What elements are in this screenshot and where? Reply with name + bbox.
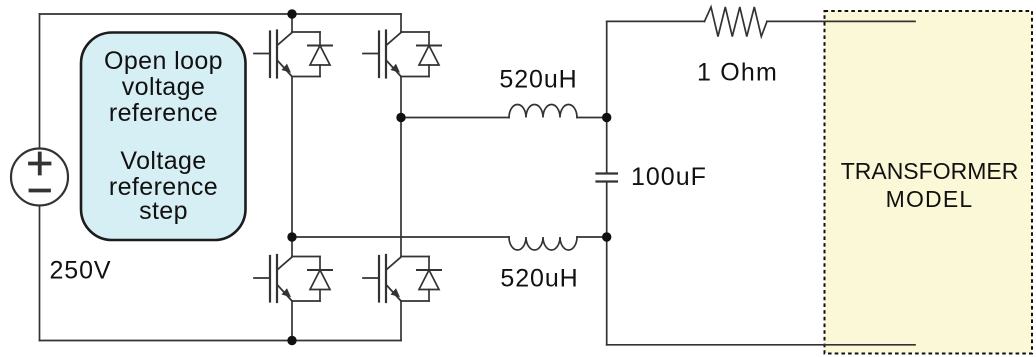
svg-text:TRANSFORMER: TRANSFORMER xyxy=(841,158,1019,184)
junction: bottom rail / leg A emitter xyxy=(287,336,296,345)
wire: capacitor node up to resistor xyxy=(607,20,705,22)
transistor Q3 (bottom-left), IGBT xyxy=(254,255,292,302)
diode D1 (antiparallel) xyxy=(292,32,332,77)
junction: leg A midpoint node xyxy=(287,232,296,241)
wire: leg B midpoint to upper filter inductor xyxy=(401,117,509,119)
wire: leg A midpoint down to Q3 collector xyxy=(291,237,293,257)
svg-text:voltage: voltage xyxy=(122,73,205,101)
junction: top rail / leg A collector xyxy=(287,9,296,18)
wire: capacitor branch vertical (lower) xyxy=(606,182,608,345)
svg-text:MODEL: MODEL xyxy=(886,186,974,212)
junction: capacitor bottom node xyxy=(602,232,611,241)
transformer model block xyxy=(825,11,1033,354)
svg-text:Open loop: Open loop xyxy=(104,47,223,75)
wire: leg B midpoint down to Q4 collector (crosses lower filter wire, no junction) xyxy=(400,118,402,257)
svg-text:reference: reference xyxy=(109,99,218,127)
junction: capacitor top node xyxy=(602,113,611,122)
wire: leg A midpoint to lower filter inductor xyxy=(292,236,509,238)
wire: left vertical, source to top rail xyxy=(39,14,41,149)
wire: leg A collector drop from top rail xyxy=(291,14,293,32)
annotation box: open loop voltage reference xyxy=(81,33,246,241)
junction: leg B midpoint node xyxy=(396,113,405,122)
wire: top DC rail xyxy=(40,13,402,15)
inductor L2, 520uH (lower) xyxy=(509,237,577,250)
svg-text:520uH: 520uH xyxy=(500,265,578,293)
svg-text:100uF: 100uF xyxy=(631,163,707,191)
wire: leg B lower emitter to bottom rail xyxy=(400,301,402,341)
wire: leg A lower emitter to bottom rail xyxy=(291,301,293,341)
wire: bottom DC rail xyxy=(40,340,402,342)
svg-text:step: step xyxy=(139,197,188,225)
svg-text:520uH: 520uH xyxy=(499,66,577,94)
diode D2 (antiparallel) xyxy=(401,32,441,77)
wire: leg A emitter down to midpoint node xyxy=(291,77,293,238)
voltage source V1 (250V DC) xyxy=(11,149,68,206)
capacitor C1, 100uF xyxy=(597,174,618,182)
svg-text:Voltage: Voltage xyxy=(120,147,206,175)
diode D4 (antiparallel) xyxy=(401,257,441,302)
transistor Q2 (top-right), IGBT xyxy=(363,31,401,78)
svg-text:250V: 250V xyxy=(50,257,112,285)
transistor Q4 (bottom-right), IGBT xyxy=(363,255,401,302)
resistor R1, 1 Ohm xyxy=(705,7,768,37)
wire: capacitor branch vertical (upper) xyxy=(606,21,608,173)
transistor Q1 (top-left), IGBT xyxy=(254,31,292,78)
inductor L1, 520uH (upper) xyxy=(509,105,577,118)
wire: lower inductor to capacitor node xyxy=(577,236,607,238)
wire: leg B collector drop from top rail xyxy=(400,14,402,32)
wire: left vertical, source to bottom rail xyxy=(39,206,41,341)
diode D3 (antiparallel) xyxy=(292,257,332,302)
wire: bottom output lead into transformer model xyxy=(607,344,915,346)
wire: upper inductor to capacitor node xyxy=(577,117,607,119)
svg-text:1 Ohm: 1 Ohm xyxy=(697,59,778,87)
wire: resistor output lead into transformer model xyxy=(767,20,915,22)
wire: leg B emitter down to midpoint node xyxy=(400,77,402,118)
